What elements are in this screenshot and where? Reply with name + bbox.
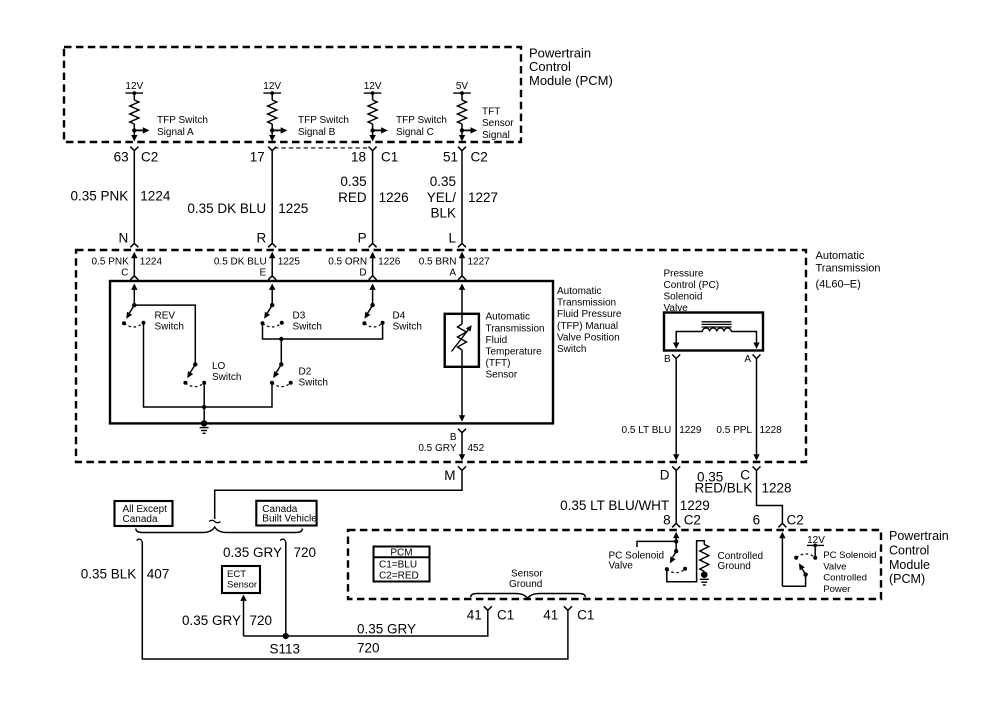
terminal A solenoid [744, 354, 760, 365]
TFP manual valve position switch box [110, 281, 553, 423]
svg-text:12V: 12V [364, 81, 382, 92]
D4 switch blade [362, 305, 373, 320]
svg-text:0.5 ORN: 0.5 ORN [328, 256, 367, 267]
svg-text:0.35 LT BLU/WHT: 0.35 LT BLU/WHT [560, 498, 669, 513]
svg-text:Ground: Ground [509, 579, 542, 590]
All Except Canada box [115, 501, 173, 526]
svg-text:Signal C: Signal C [396, 127, 434, 138]
wire D to PCM pin 8 [675, 470, 677, 523]
node D4 pivot [370, 303, 374, 307]
node D2 feed junction [279, 337, 283, 341]
svg-text:Control: Control [889, 543, 929, 557]
wire S113 to sensor ground pin [244, 613, 488, 636]
wire L entry arrow [459, 252, 465, 276]
svg-text:Transmission: Transmission [486, 323, 545, 334]
node D2 pivot [279, 362, 283, 366]
svg-text:R: R [256, 230, 266, 245]
PCM connector legend box [374, 547, 430, 582]
wire N inside box arrow [131, 284, 137, 306]
Pressure Control solenoid label [664, 268, 720, 314]
terminal B fork [450, 429, 466, 444]
solenoid internal wires with arrows [673, 332, 760, 349]
wire REV contact down [144, 323, 205, 407]
svg-text:Sensor: Sensor [486, 370, 518, 381]
svg-text:8: 8 [663, 513, 671, 528]
wire junction to D2 pivot [280, 339, 282, 364]
svg-text:(PCM): (PCM) [889, 572, 925, 586]
svg-text:PC Solenoid: PC Solenoid [823, 550, 876, 561]
terminal A fork [458, 276, 466, 280]
svg-text:Valve: Valve [609, 561, 634, 572]
resistor pull-up TFT [458, 100, 467, 124]
svg-text:0.5 DK BLU: 0.5 DK BLU [214, 256, 267, 267]
svg-text:1224: 1224 [140, 188, 171, 203]
driver output stub [637, 541, 676, 547]
signal arrow C [373, 127, 388, 133]
svg-text:1224: 1224 [140, 256, 163, 267]
terminal 17 [268, 147, 276, 151]
svg-text:P: P [358, 230, 367, 245]
svg-text:Temperature: Temperature [486, 347, 543, 358]
D4 switch contacts and dashed arc [362, 321, 384, 327]
wire 1227 PCM to transmission [461, 151, 463, 244]
label 0.35 LT BLU/WHT 1229 [560, 498, 710, 513]
signal arrow A [134, 127, 149, 133]
label 0.35 YEL/BLK 1227 [427, 174, 498, 220]
label D2 Switch [299, 367, 328, 389]
pin label 51 / C2 [443, 149, 488, 164]
ECT Sensor box [222, 566, 260, 593]
wire LO contact to ground [203, 383, 205, 424]
wire canada branch to S113 [285, 542, 287, 636]
svg-text:0.35 DK BLU: 0.35 DK BLU [187, 201, 266, 216]
svg-text:Automatic: Automatic [816, 250, 865, 262]
svg-text:PCM: PCM [390, 548, 412, 559]
wire power switch loop [782, 575, 805, 587]
sensor ground brace [471, 594, 586, 599]
node driver switch pivot [674, 541, 678, 553]
label 0.35 PNK 1224 [71, 188, 171, 203]
label All Except Canada [123, 504, 168, 525]
svg-text:6: 6 [753, 513, 761, 528]
svg-text:M: M [444, 468, 455, 483]
TFT sensor box [445, 314, 479, 367]
svg-text:Built Vehicle: Built Vehicle [262, 513, 317, 524]
label Canada Built Vehicle [262, 504, 317, 525]
svg-text:A: A [449, 267, 456, 278]
svg-text:1229: 1229 [680, 498, 710, 513]
svg-text:1227: 1227 [468, 190, 498, 205]
PCM top dashed box [64, 47, 521, 142]
pin label 17 [250, 149, 265, 164]
5V supply TFT [453, 81, 471, 100]
svg-text:720: 720 [250, 613, 273, 628]
D2 switch blade [271, 364, 282, 379]
terminal R [256, 230, 276, 247]
label: Automatic Transmission Fluid Pressure (TFP) Manual Valve Position Switch [557, 286, 622, 355]
wire all-except-canada branch [142, 542, 568, 659]
wire R inside box arrow [269, 284, 275, 306]
svg-text:Valve: Valve [823, 561, 846, 572]
svg-text:Ground: Ground [718, 561, 751, 572]
svg-text:0.5 PNK: 0.5 PNK [92, 256, 130, 267]
wire B to transmission edge arrow [459, 433, 465, 461]
wire solenoid A down [753, 359, 759, 461]
wire B to PCM edge with down arrow [269, 130, 275, 141]
svg-text:Pressure: Pressure [664, 268, 704, 279]
wire N entry arrow [131, 252, 137, 276]
svg-text:(TFT): (TFT) [486, 358, 511, 369]
svg-text:Transmission: Transmission [816, 262, 881, 274]
12V supply B [263, 81, 281, 100]
svg-text:N: N [119, 230, 129, 245]
svg-text:Switch: Switch [155, 321, 184, 332]
terminal 18 C1 [369, 147, 377, 151]
svg-text:Switch: Switch [557, 344, 586, 355]
break squiggle at option split [209, 520, 220, 523]
label Controlled Ground [718, 551, 764, 572]
svg-text:1229: 1229 [679, 425, 702, 436]
wire 1224 PCM to transmission [133, 151, 135, 244]
terminal P [358, 230, 377, 247]
svg-text:(4L60–E): (4L60–E) [816, 279, 861, 291]
svg-text:Fluid Pressure: Fluid Pressure [557, 309, 622, 320]
svg-text:C2: C2 [684, 513, 701, 528]
svg-text:Powertrain: Powertrain [889, 529, 949, 543]
D3 switch blade [262, 305, 273, 320]
svg-text:C1=BLU: C1=BLU [379, 559, 417, 570]
wire L through TFT [459, 284, 465, 325]
solenoid core lines [702, 322, 732, 327]
svg-text:0.5 GRY: 0.5 GRY [418, 443, 456, 454]
REV switch contacts and dashed arc [122, 321, 146, 327]
svg-text:REV: REV [155, 311, 176, 322]
wire P entry arrow [369, 252, 375, 276]
svg-text:Sensor: Sensor [227, 580, 257, 591]
label 0.35 RED/BLK 1228 [695, 469, 792, 495]
svg-text:RED/BLK: RED/BLK [695, 480, 753, 495]
svg-text:41: 41 [543, 607, 558, 622]
terminal M [444, 466, 466, 482]
D2 switch contacts and dashed arc [270, 381, 293, 387]
PC solenoid valve box [664, 313, 763, 351]
resistor pull-up B [268, 100, 277, 124]
terminal 41 C1 first [467, 606, 514, 622]
wire 1226 PCM to transmission [372, 151, 374, 244]
driver switch blade [667, 551, 676, 565]
label: TFP Switch Signal A [157, 115, 208, 138]
wire L TFT to box bottom arrow [459, 350, 465, 422]
svg-text:12V: 12V [807, 535, 825, 546]
wire C jog to PCM pin 6 [757, 470, 783, 523]
svg-text:RED: RED [338, 190, 367, 205]
power switch blade [796, 562, 805, 575]
wire 1225 PCM to transmission [271, 151, 273, 244]
svg-text:C1: C1 [497, 607, 514, 622]
svg-text:Module (PCM): Module (PCM) [529, 73, 613, 88]
svg-text:YEL/: YEL/ [427, 190, 457, 205]
svg-text:Solenoid: Solenoid [664, 292, 703, 303]
svg-text:Valve Position: Valve Position [557, 332, 620, 343]
svg-text:Switch: Switch [393, 321, 422, 332]
label PC Solenoid Valve (driver) [609, 551, 665, 572]
svg-text:S113: S113 [270, 642, 301, 657]
svg-text:Transmission: Transmission [557, 298, 616, 309]
node REV pivot [132, 303, 136, 307]
svg-text:63: 63 [114, 149, 129, 164]
D3 switch contacts and dashed arc [261, 321, 284, 327]
terminal L [448, 230, 466, 247]
label: TFT Sensor Signal [482, 107, 514, 141]
svg-text:C2=RED: C2=RED [379, 570, 419, 581]
label Sensor Ground [509, 569, 543, 590]
svg-text:C1: C1 [577, 607, 594, 622]
svg-text:B: B [450, 432, 457, 443]
terminal E fork [268, 276, 276, 280]
svg-text:12V: 12V [125, 81, 143, 92]
label PC Solenoid Valve Controlled Power [823, 550, 876, 595]
label 0.35 GRY 720 (splice run) [357, 622, 416, 656]
svg-text:1227: 1227 [468, 256, 491, 267]
wire P inside box arrow [369, 284, 375, 306]
LO switch pivot [193, 362, 197, 366]
label 0.5 PNK 1224 pin C [92, 256, 163, 278]
svg-text:C1: C1 [381, 149, 398, 164]
svg-text:1228: 1228 [762, 480, 792, 495]
terminal pin 8 fork [672, 523, 680, 527]
pin label 63 / C2 [114, 149, 159, 164]
svg-text:Module: Module [889, 558, 930, 572]
terminal 41 C1 second [543, 606, 594, 622]
svg-text:ECT: ECT [227, 569, 246, 580]
svg-text:TFT: TFT [482, 107, 500, 118]
svg-text:1225: 1225 [278, 256, 301, 267]
12V supply C [364, 81, 382, 100]
node power switch pivot [803, 572, 807, 576]
svg-text:0.35: 0.35 [340, 174, 366, 189]
label: Automatic Transmission Fluid Temperature (TFT) Sensor [486, 312, 545, 381]
node driver output junction [674, 539, 678, 543]
terminal C fork [130, 276, 138, 280]
svg-text:Controlled: Controlled [823, 573, 867, 584]
label 0.35 DK BLU 1225 [187, 201, 308, 216]
svg-text:1226: 1226 [379, 190, 409, 205]
label 0.5 DK BLU 1225 pin E [214, 256, 300, 278]
svg-text:17: 17 [250, 149, 265, 164]
controlled ground symbol [700, 571, 709, 585]
svg-text:Canada: Canada [123, 514, 158, 525]
label PCM C1=BLU C2=RED [379, 548, 419, 582]
REV switch blade [124, 305, 135, 320]
pin label 18 / C1 [351, 149, 398, 164]
svg-text:1226: 1226 [378, 256, 401, 267]
12V supply power switch [807, 535, 825, 558]
svg-text:D: D [660, 467, 670, 482]
label REV Switch [155, 311, 184, 333]
svg-text:D3: D3 [293, 311, 306, 322]
pin label 8 / C2 [663, 513, 701, 528]
label LO Switch [212, 361, 241, 383]
node: TFP signal B junction [270, 124, 274, 133]
LO switch blade [185, 364, 196, 379]
node: TFT signal junction [460, 124, 464, 133]
svg-text:Power: Power [823, 584, 851, 595]
terminal C transmission bottom [740, 466, 760, 482]
svg-text:Automatic: Automatic [557, 286, 601, 297]
svg-text:L: L [448, 230, 456, 245]
label: Powertrain Control Module (PCM) bottom right [889, 529, 949, 586]
svg-text:12V: 12V [263, 81, 281, 92]
signal arrow TFT [462, 127, 477, 133]
label D3 Switch [293, 311, 322, 333]
node: TFP signal A junction [132, 124, 136, 133]
svg-text:0.5 LT BLU: 0.5 LT BLU [622, 425, 672, 436]
svg-text:0.35: 0.35 [430, 174, 456, 189]
svg-text:Automatic: Automatic [486, 312, 530, 323]
terminal 51 C2 [458, 147, 466, 151]
branch hook right [280, 539, 286, 542]
svg-text:E: E [260, 267, 267, 278]
svg-text:0.35 BLK: 0.35 BLK [81, 567, 137, 582]
svg-text:Signal B: Signal B [298, 127, 336, 138]
connector C1 dashed link line [274, 147, 367, 149]
svg-text:TFP Switch: TFP Switch [298, 115, 349, 126]
node ground collector junction [202, 405, 206, 409]
PCM bottom dashed box [348, 530, 881, 599]
node D3 pivot [270, 303, 274, 307]
wire C to PCM edge with down arrow [369, 130, 375, 141]
svg-text:452: 452 [468, 443, 485, 454]
svg-text:A: A [744, 354, 751, 365]
svg-text:0.5 PPL: 0.5 PPL [716, 425, 752, 436]
Automatic Transmission dashed box [76, 250, 806, 462]
svg-text:51: 51 [443, 149, 458, 164]
solenoid coil [702, 328, 731, 332]
label 0.5 GRY 452 [418, 443, 484, 454]
wire TFT to PCM edge with down arrow [459, 130, 465, 141]
svg-text:41: 41 [467, 607, 482, 622]
wire R entry arrow [269, 252, 275, 276]
svg-text:LO: LO [212, 361, 226, 372]
wire pin 8 entry arrow [673, 532, 679, 542]
svg-text:720: 720 [294, 545, 317, 560]
signal arrow B [272, 127, 287, 133]
svg-text:Switch: Switch [293, 321, 322, 332]
ground symbol transmission [200, 420, 209, 433]
svg-text:Switch: Switch [299, 377, 328, 388]
wire to ECT sensor with up arrow [240, 595, 246, 637]
label: TFP Switch Signal C [396, 115, 447, 138]
svg-text:407: 407 [147, 567, 170, 582]
svg-text:Control (PC): Control (PC) [664, 280, 720, 291]
pin label 6 / C2 [753, 513, 804, 528]
svg-text:0.5 BRN: 0.5 BRN [419, 256, 457, 267]
terminal D fork [369, 276, 377, 280]
svg-text:5V: 5V [456, 81, 469, 92]
controlled ground resistor [700, 545, 709, 572]
wire collector to D2 contact [204, 383, 272, 407]
svg-text:D4: D4 [393, 311, 406, 322]
wire M to option split [215, 470, 462, 519]
terminal B solenoid [664, 354, 680, 365]
svg-text:D: D [359, 267, 366, 278]
svg-text:0.35 PNK: 0.35 PNK [71, 188, 129, 203]
12V supply A [125, 81, 143, 100]
wire REV pivot to LO pivot [134, 305, 195, 364]
node: TFP signal C junction [370, 124, 374, 133]
svg-text:C: C [121, 267, 128, 278]
wire A to PCM edge with down arrow [131, 130, 137, 141]
power switch contacts and dashed arc [794, 554, 817, 560]
splice S113 [270, 633, 301, 657]
label 0.35 GRY 720 (ECT) [182, 613, 272, 628]
branch hook left [137, 539, 143, 542]
TFT thermistor [452, 323, 475, 351]
label 0.5 PPL 1228 [716, 425, 782, 436]
label 0.5 LT BLU 1229 [622, 425, 702, 436]
svg-text:BLK: BLK [430, 205, 456, 220]
svg-text:Sensor: Sensor [482, 118, 514, 129]
svg-text:Switch: Switch [212, 372, 241, 383]
driver switch contacts and dashed arc [665, 567, 687, 573]
label: Powertrain Control Module (PCM) top right [529, 46, 613, 88]
label 0.35 BLK 407 [81, 567, 170, 582]
label: TFP Switch Signal B [298, 115, 349, 138]
svg-text:18: 18 [351, 149, 366, 164]
Canada Built Vehicle box [256, 501, 316, 526]
label 0.35 RED 1226 [338, 174, 409, 205]
wire pin 6 entry arrow [779, 532, 785, 586]
wire D3-D4 bus [263, 323, 383, 339]
svg-text:D2: D2 [299, 367, 312, 378]
terminal D transmission bottom [660, 466, 680, 482]
svg-text:0.35 GRY: 0.35 GRY [182, 613, 241, 628]
resistor pull-up A [130, 100, 139, 124]
svg-text:1228: 1228 [760, 425, 783, 436]
svg-text:(TFP) Manual: (TFP) Manual [557, 321, 618, 332]
svg-text:TFP Switch: TFP Switch [157, 115, 208, 126]
label 0.35 GRY 720 (canada branch) [223, 545, 316, 560]
terminal pin 6 fork [778, 523, 786, 527]
svg-text:Signal: Signal [482, 130, 510, 141]
svg-text:C2: C2 [471, 149, 488, 164]
option split brace [136, 527, 303, 533]
wire solenoid B down [673, 359, 679, 461]
terminal N [119, 230, 139, 247]
svg-text:C2: C2 [141, 149, 158, 164]
label: Automatic Transmission (4L60-E) [816, 250, 881, 291]
svg-text:720: 720 [357, 641, 380, 656]
svg-text:Fluid: Fluid [486, 335, 508, 346]
label 0.5 BRN 1227 pin A [419, 256, 490, 278]
LO switch contacts and dashed arc [183, 381, 206, 387]
svg-text:Signal A: Signal A [157, 127, 194, 138]
svg-text:TFP Switch: TFP Switch [396, 115, 447, 126]
label ECT Sensor [227, 569, 257, 591]
wire driver contact to controlled ground resistor [667, 541, 705, 582]
label 0.5 ORN 1226 pin D [328, 256, 401, 278]
terminal 63 C2 [130, 147, 138, 151]
svg-text:B: B [664, 354, 671, 365]
svg-text:C2: C2 [787, 513, 804, 528]
svg-text:1225: 1225 [278, 201, 308, 216]
resistor pull-up C [368, 100, 377, 124]
svg-text:0.35 GRY: 0.35 GRY [223, 545, 282, 560]
label D4 Switch [393, 311, 422, 333]
svg-text:0.35 GRY: 0.35 GRY [357, 622, 416, 637]
